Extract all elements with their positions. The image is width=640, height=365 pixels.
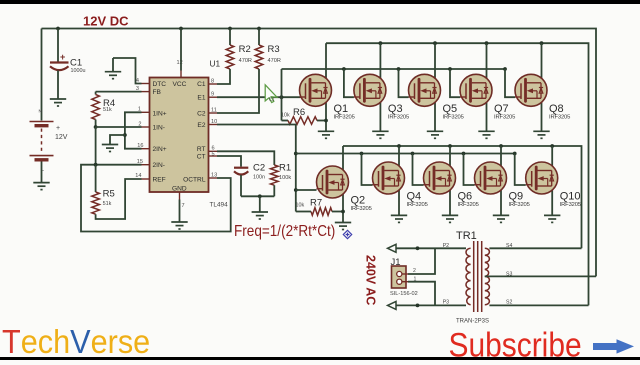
wire 12V rail to transformer S3 tap: [42, 29, 597, 277]
svg-text:3: 3: [136, 86, 139, 92]
svg-text:R7: R7: [310, 198, 322, 209]
wire row1 drain rail to S2: [326, 43, 589, 305]
wire R4 top to FB pin3: [96, 91, 142, 93]
origin marker (blue diamond): [343, 230, 351, 238]
transistor Q8 IRF3205 (MOSFET): [515, 74, 570, 120]
wire R2 to C1 pin8: [217, 69, 230, 84]
junction R5 tap: [94, 163, 98, 167]
junction drain Q9: [499, 144, 503, 148]
junction gate tap Q4: [360, 152, 364, 156]
svg-text:R1: R1: [279, 163, 291, 174]
junction row2 gate bus: [294, 152, 298, 156]
wire drain Q9: [500, 146, 502, 171]
svg-text:Q8: Q8: [549, 103, 564, 115]
junction gate tap Q5: [397, 67, 401, 71]
svg-text:R2: R2: [239, 44, 251, 55]
wire R7 right lead: [332, 211, 343, 213]
wire oscillator ground rail: [241, 195, 274, 197]
svg-text:E2: E2: [197, 122, 205, 129]
svg-text:Q2: Q2: [351, 195, 366, 207]
svg-text:TechVerse: TechVerse: [2, 323, 150, 360]
ground below Q4: [391, 215, 407, 222]
junction gate tap Q10: [513, 152, 517, 156]
transistor Q1 IRF3205 (MOSFET): [300, 74, 355, 120]
svg-text:100n: 100n: [253, 175, 265, 181]
junction gate tap Q8: [503, 67, 507, 71]
transistor Q7 IRF3205 (MOSFET): [460, 74, 515, 120]
svg-text:R5: R5: [103, 189, 115, 200]
wire gate tap to Q3: [344, 69, 354, 97]
wire C2 bottom lead: [240, 175, 242, 196]
wire gate tap to Q10: [515, 154, 526, 186]
junction gate tap Q3: [342, 67, 346, 71]
svg-text:RT: RT: [197, 146, 206, 153]
wire drain Q8: [541, 43, 543, 83]
svg-text:Q4: Q4: [407, 191, 422, 203]
wire to ground at 2IN+: [110, 135, 125, 145]
wire drain Q5: [434, 43, 436, 83]
svg-text:IRF3205: IRF3205: [407, 202, 428, 208]
capacitor C1 1000u electrolytic: [50, 52, 86, 74]
svg-text:C1: C1: [70, 58, 82, 69]
svg-text:Q5: Q5: [443, 103, 458, 115]
transistor Q6 IRF3205 (MOSFET): [424, 162, 479, 208]
svg-text:4: 4: [136, 78, 139, 84]
ground below Q1: [318, 131, 334, 138]
ground below Q3: [372, 131, 388, 138]
svg-text:VCC: VCC: [173, 81, 187, 88]
wire 2IN- pin15 to OCTRL pin13: [81, 165, 231, 232]
junction R4 / 1IN- net: [94, 125, 98, 129]
output terminal (arrow) P3: [388, 301, 397, 309]
transistor Q9 IRF3205 (MOSFET): [475, 162, 530, 208]
svg-text:1: 1: [138, 107, 141, 113]
wire R4-R5 column: [95, 127, 97, 165]
wire gate tap to Q6: [413, 154, 424, 186]
op-amp U1 TL494 (PWM controller IC): [135, 58, 228, 209]
resistor R2 470R: [226, 45, 234, 69]
junction J1 pin2 net: [416, 246, 420, 250]
wire row2 gate bus: [296, 153, 515, 155]
ground below Q9: [493, 215, 509, 222]
svg-text:15: 15: [137, 159, 143, 165]
svg-text:1IN-: 1IN-: [153, 124, 165, 131]
transistor Q2 IRF3205 (MOSFET): [317, 166, 372, 212]
wire R4 bottom lead: [95, 120, 97, 128]
ground below Q5: [427, 131, 443, 138]
ground below Q6: [442, 215, 458, 222]
wire R1 bottom lead: [273, 185, 275, 196]
wire S3 tap: [485, 275, 596, 277]
junction on 12V rail: [228, 27, 232, 31]
wire RT pin6 to R1: [217, 151, 274, 165]
transistor Q5 IRF3205 (MOSFET): [409, 74, 464, 120]
ground below C1: [50, 99, 66, 106]
junction gate tap Q7: [448, 67, 452, 71]
wire source Q10 to ground: [551, 186, 553, 215]
wire to Q2 gate: [296, 189, 317, 191]
wire source Q9 to ground: [500, 186, 502, 215]
wire drain Q7: [486, 43, 488, 83]
svg-text:IRF3205: IRF3205: [549, 114, 570, 120]
junction R6 to Q1 source: [324, 119, 328, 123]
svg-text:SIL-156-02: SIL-156-02: [390, 291, 418, 297]
svg-text:OCTRL: OCTRL: [183, 176, 206, 183]
svg-text:IRF3205: IRF3205: [334, 114, 355, 120]
wire source Q8 to ground: [541, 98, 543, 131]
svg-text:Q6: Q6: [458, 191, 473, 203]
wire P3 to terminal: [396, 304, 466, 306]
svg-text:9: 9: [211, 92, 214, 98]
connector J1 SIL-156-02: [390, 257, 418, 297]
wire CT pin5 to C2: [217, 156, 241, 167]
wire to ground: [259, 196, 261, 212]
output terminal (arrow) P2: [388, 244, 397, 252]
svg-text:12V DC: 12V DC: [83, 14, 129, 29]
logo TechVerse: [2, 323, 150, 361]
wire source Q4 to ground: [398, 186, 400, 215]
svg-text:Subscribe: Subscribe: [449, 326, 582, 360]
wire source Q6 to ground: [449, 186, 451, 215]
svg-text:12V: 12V: [55, 134, 68, 141]
bottom black bar: [0, 357, 640, 360]
svg-text:7: 7: [182, 203, 185, 209]
resistor R1 100k: [271, 165, 279, 185]
wire row2 drain rail to S4: [343, 146, 582, 248]
transformer TR1 TRAN-2P3S: [443, 230, 513, 325]
wire R2 top lead: [229, 29, 231, 46]
wire J1 pin1 to P3 net: [408, 282, 435, 306]
wire drain Q10: [551, 146, 553, 171]
transistor Q4 IRF3205 (MOSFET): [373, 162, 428, 208]
junction on 12V rail: [56, 27, 60, 31]
resistor R7 10k: [311, 208, 332, 216]
resistor R5 51k: [92, 192, 100, 214]
svg-text:2: 2: [138, 121, 141, 127]
junction ground tap: [123, 133, 127, 137]
junction drain Q5: [433, 41, 437, 45]
wire drain Q6: [449, 146, 451, 171]
svg-text:IRF3205: IRF3205: [443, 114, 464, 120]
svg-text:14: 14: [135, 173, 141, 179]
wire 1IN+ pin1 to 2IN+ pin16: [125, 112, 142, 148]
wire to 1IN- pin2: [96, 126, 142, 128]
svg-text:GND: GND: [172, 186, 187, 193]
svg-text:Freq=1/(2*Rt*Ct): Freq=1/(2*Rt*Ct): [234, 223, 335, 240]
wire VCC pin12 to rail: [180, 29, 182, 71]
svg-text:CT: CT: [197, 153, 206, 160]
wire drain Q2: [342, 146, 344, 175]
wire gate tap to Q9: [464, 154, 475, 186]
svg-text:E1: E1: [197, 95, 205, 102]
svg-text:J1: J1: [391, 257, 401, 268]
svg-text:IRF3205: IRF3205: [509, 202, 530, 208]
ground at pin7: [171, 222, 187, 229]
svg-text:10k: 10k: [281, 113, 290, 119]
wire R7 left lead: [296, 211, 311, 213]
wire 12V rail to C1: [57, 29, 59, 62]
junction on 12V rail: [257, 27, 261, 31]
junction drain Q10: [550, 144, 554, 148]
svg-text:5: 5: [212, 152, 215, 158]
voltage probe on E1 net: [265, 85, 277, 103]
svg-text:C2: C2: [253, 163, 265, 174]
wire J1 pin2 to P2 net: [408, 248, 435, 274]
wire E1 column to gate bus and R6: [281, 69, 283, 121]
svg-text:+: +: [60, 52, 65, 62]
svg-text:100k: 100k: [279, 175, 291, 181]
svg-text:2IN+: 2IN+: [153, 146, 167, 153]
wire source Q5 to ground: [434, 98, 436, 131]
junction drain Q4: [397, 144, 401, 148]
junction on 12V rail: [179, 27, 183, 31]
svg-text:U1: U1: [210, 58, 221, 68]
wire source Q3 to ground: [379, 98, 381, 131]
wire P2 to terminal: [396, 247, 466, 249]
svg-text:Q10: Q10: [560, 191, 581, 203]
resistor R4 51k: [92, 95, 100, 120]
junction drain Q8: [540, 41, 544, 45]
wire C1 to ground: [57, 71, 59, 100]
battery 12V: [30, 109, 68, 175]
svg-text:51k: 51k: [103, 107, 112, 113]
svg-text:+: +: [56, 125, 60, 132]
svg-text:13: 13: [211, 173, 217, 179]
svg-text:11: 11: [211, 108, 217, 114]
wire drain Q3: [379, 43, 381, 83]
ground at oscillator: [252, 212, 268, 219]
svg-text:FB: FB: [153, 89, 162, 96]
wire battery top: [41, 29, 43, 121]
junction Q2 gate: [294, 188, 298, 192]
svg-text:Q9: Q9: [509, 191, 524, 203]
junction gate tap Q6: [411, 152, 415, 156]
svg-text:16: 16: [137, 143, 143, 149]
junction E1 net: [280, 95, 284, 99]
wire drain Q4: [398, 146, 400, 171]
svg-text:240V AC: 240V AC: [364, 255, 378, 305]
svg-text:C1: C1: [197, 81, 206, 88]
ground below Q7: [478, 131, 494, 138]
wire row1 gate bus: [282, 68, 506, 70]
ground below battery: [33, 183, 49, 190]
svg-text:DTC: DTC: [153, 81, 167, 88]
wire R3 to C2 pin11: [217, 69, 259, 113]
resistor R3 470R: [255, 45, 263, 69]
junction ground tap: [258, 194, 262, 198]
ground at 2IN+: [102, 145, 118, 152]
junction drain Q7: [485, 41, 489, 45]
wire source Q2 to ground: [342, 190, 344, 223]
svg-text:TL494: TL494: [210, 202, 229, 209]
junction drain Q3: [379, 41, 383, 45]
svg-text:IRF3205: IRF3205: [494, 114, 515, 120]
wire R5 bottom to REF pin14: [96, 179, 142, 219]
wire R5 top lead: [95, 165, 97, 192]
wire E1 pin9 to Q1 gate: [217, 96, 301, 98]
wire S4 tap: [489, 247, 581, 249]
capacitor C2 100n: [234, 163, 265, 181]
junction J1 pin1 net: [416, 304, 420, 308]
ground below Q10: [544, 215, 560, 222]
svg-text:Q3: Q3: [388, 103, 403, 115]
svg-text:IRF3205: IRF3205: [458, 202, 479, 208]
svg-text:10k: 10k: [296, 203, 305, 209]
svg-text:10: 10: [211, 119, 217, 125]
svg-text:REF: REF: [153, 176, 166, 183]
resistor R6 10k: [288, 117, 317, 125]
subscribe arrow: [593, 339, 634, 353]
svg-text:R3: R3: [268, 44, 280, 55]
wire E2 pin10 column: [217, 125, 296, 212]
wire R4 top lead: [95, 92, 97, 95]
svg-text:51k: 51k: [103, 201, 112, 207]
svg-text:C2: C2: [197, 111, 206, 118]
svg-text:IRF3205: IRF3205: [388, 114, 409, 120]
svg-text:TR1: TR1: [456, 230, 477, 242]
svg-text:Q1: Q1: [334, 103, 349, 115]
wire gate tap to Q7: [450, 69, 460, 97]
wire ground stub DTC: [112, 58, 114, 72]
junction drain Q6: [448, 144, 452, 148]
svg-text:IRF3205: IRF3205: [560, 202, 581, 208]
transistor Q3 IRF3205 (MOSFET): [354, 74, 409, 120]
svg-text:470R: 470R: [268, 58, 281, 64]
svg-text:1000u: 1000u: [71, 68, 86, 74]
ground at DTC: [105, 72, 121, 79]
svg-text:E1: E1: [269, 97, 275, 102]
wire R6 left lead: [282, 120, 289, 122]
svg-text:IRF3205: IRF3205: [351, 206, 372, 212]
svg-text:N: N: [39, 109, 42, 114]
svg-text:Q7: Q7: [494, 103, 509, 115]
wire S2 tap: [489, 304, 588, 306]
top black bar: [0, 0, 640, 4]
wire gate tap to Q4: [362, 154, 373, 186]
wire gate tap to Q5: [399, 69, 409, 97]
junction gate tap Q9: [462, 152, 466, 156]
wire source Q7 to ground: [486, 98, 488, 131]
ground below Q8: [533, 131, 549, 138]
transistor Q10 IRF3205 (MOSFET): [526, 162, 581, 208]
wire R3 top lead: [258, 29, 260, 46]
svg-text:TRAN-2P3S: TRAN-2P3S: [456, 319, 489, 325]
svg-text:8: 8: [211, 79, 214, 85]
junction R7 to Q2 source: [341, 210, 345, 214]
wire GND pin7 to ground: [179, 200, 181, 223]
wire DTC pin4 to ground: [113, 58, 142, 84]
svg-text:R6: R6: [293, 107, 305, 118]
wire drain Q1: [325, 43, 327, 83]
svg-text:470R: 470R: [239, 58, 252, 64]
wire R6 right lead: [317, 120, 326, 122]
wire source Q1 to ground: [325, 98, 327, 131]
svg-text:2IN-: 2IN-: [153, 162, 165, 169]
wire battery to ground: [41, 162, 43, 183]
svg-text:1IN+: 1IN+: [153, 111, 167, 118]
ground below Q2: [335, 223, 351, 230]
wire gate tap to Q8: [505, 69, 515, 97]
